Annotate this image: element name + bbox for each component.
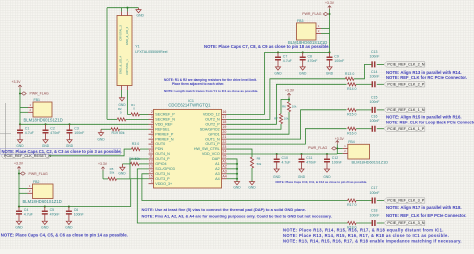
svg-text:PCIE_REF_CLK_RESET_N: PCIE_REF_CLK_RESET_N [4, 154, 51, 158]
svg-text:VDDO_3+: VDDO_3+ [155, 182, 172, 186]
note refclk RC [386, 75, 467, 80]
wire pin20 GPIO1 to R6 [227, 112, 290, 134]
wire reset label to R3 [49, 149, 132, 156]
note place R close [283, 233, 449, 238]
note refclk loopback [386, 120, 474, 125]
IC1 right pin 25 DAP [212, 155, 226, 161]
Y1 top pin stubs [122, 12, 128, 16]
gnd text under C1 [16, 144, 24, 148]
svg-text:4.7uF: 4.7uF [283, 59, 292, 63]
gnd text under C2 [42, 144, 50, 148]
svg-text:GND: GND [273, 175, 281, 179]
svg-text:9: 9 [151, 145, 153, 149]
capacitor C17 100nF [370, 186, 380, 203]
svg-text:11: 11 [149, 155, 153, 159]
wire C16 to label [377, 128, 384, 130]
svg-text:C13: C13 [371, 50, 377, 54]
svg-text:22: 22 [222, 140, 226, 144]
svg-text:C5: C5 [50, 208, 55, 212]
svg-text:PCIE_REF_CLK_3_N: PCIE_REF_CLK_3_N [387, 221, 424, 225]
gnd text under C10 [273, 175, 281, 179]
wire rail2 [19, 206, 131, 208]
note align R15 R16 [386, 115, 462, 120]
svg-text:NOTE: R13, R14, R15, R16, R17,: NOTE: R13, R14, R15, R16, R17, & R18 ena… [283, 238, 462, 243]
gnd at crystal top [136, 8, 145, 18]
gnd text under C8 [299, 72, 307, 76]
svg-text:FB3: FB3 [297, 19, 303, 23]
capacitor C11 [299, 153, 317, 172]
svg-text:PCIE_REF_CLK_2_P: PCIE_REF_CLK_2_P [387, 83, 424, 87]
wire R15 to C15 [356, 109, 372, 111]
global label PCIE_REF_CLK_3_P [384, 198, 425, 203]
gnd text under C7 [274, 72, 282, 76]
IC1 left pin 1 VDDO_3+ [149, 179, 173, 185]
svg-text:1: 1 [151, 179, 153, 183]
svg-text:REFSEL: REFSEL [155, 127, 169, 131]
svg-text:100nF: 100nF [74, 131, 84, 135]
svg-text:100nF: 100nF [370, 213, 380, 217]
gnd text under C9 [326, 72, 334, 76]
svg-text:R17 0: R17 0 [347, 203, 356, 207]
svg-text:470nF: 470nF [306, 161, 316, 165]
svg-text:4.7uF: 4.7uF [25, 131, 34, 135]
ferrite bead FB4 [348, 140, 370, 159]
IC1 left pin 14 OUT3_N [149, 170, 171, 176]
junction FB4 +3.3V [336, 147, 338, 149]
Y1 pin name CRYSTAL_3 (rotated) [119, 25, 123, 41]
svg-text:GND: GND [274, 72, 282, 76]
global label PCIE_REF_CLK_2_P [384, 82, 425, 87]
crystal Y1 symbol body [117, 16, 132, 86]
IC1 reference designator [188, 99, 194, 103]
wire pin13 OUT3_N to row 3N [137, 169, 347, 223]
svg-text:R7: R7 [274, 117, 278, 121]
svg-text:21: 21 [222, 135, 226, 139]
svg-text:GND: GND [42, 144, 50, 148]
power flag PWR_FLAG (FB4) [308, 146, 337, 150]
wire R17 to C17 [356, 200, 372, 202]
capacitor C9 [327, 52, 345, 70]
svg-text:A1: A1 [215, 162, 220, 166]
svg-text:BLM18HD601S1Z1D: BLM18HD601S1Z1D [352, 159, 389, 164]
global label PCIE_REF_CLK_2_N [384, 62, 425, 67]
svg-text:NOTE: Place R13, R14, R15, R16: NOTE: Place R13, R14, R15, R16, R17, & R… [283, 233, 449, 238]
wire pin17 OUT2_N up [227, 79, 346, 120]
note box caps C1C2C3 [1, 148, 122, 154]
svg-text:PRIREF_N: PRIREF_N [155, 137, 174, 141]
global label PCIE_REF_CLK_RESET_N [1, 153, 51, 159]
svg-text:FB2: FB2 [33, 180, 39, 184]
svg-text:R6: R6 [282, 105, 286, 109]
svg-text:PWR_FLAG: PWR_FLAG [308, 146, 328, 150]
IC U1 symbol body CDCE6214TWRGTQ1 [154, 109, 222, 188]
resistor R18 0 [347, 221, 356, 229]
svg-text:A3: A3 [215, 172, 220, 176]
wire R4 to pin12 [139, 163, 149, 165]
wire C13 to label [377, 63, 384, 65]
svg-text:GND: GND [41, 225, 49, 229]
IC1 right pin 18 OUT2_P [205, 120, 226, 126]
wire R18 to C18 [356, 222, 372, 224]
svg-text:10k: 10k [284, 117, 289, 121]
gnd text under C11 [298, 175, 306, 179]
svg-text:A3: A3 [222, 170, 226, 174]
resistor R13 0 [345, 72, 354, 80]
gnd text under C5 [41, 225, 49, 229]
wire pin16 VDDO_12 to rail0 [227, 52, 265, 114]
svg-text:GND: GND [326, 72, 334, 76]
svg-text:CRYSTAL_3: CRYSTAL_3 [119, 25, 123, 41]
wire C14 to label [377, 83, 384, 85]
svg-text:+3.3V: +3.3V [14, 162, 24, 166]
capacitor C2 [43, 123, 61, 143]
capacitor C8 [300, 51, 318, 70]
note align R13 R14 [386, 70, 462, 75]
svg-text:5: 5 [151, 125, 153, 129]
svg-text:7: 7 [151, 135, 153, 139]
note caps C4C5C6 [1, 233, 128, 238]
global label PCIE_REF_CLK_1_P [384, 126, 425, 131]
svg-text:NOTE: Place Caps C4, C5, & C6: NOTE: Place Caps C4, C5, & C6 as close t… [1, 233, 128, 238]
IC1 left pin 3 SECREF_N [149, 115, 176, 121]
svg-text:VDD_REF: VDD_REF [155, 122, 173, 126]
svg-text:GND: GND [65, 225, 73, 229]
svg-text:OUT3_N: OUT3_N [155, 172, 170, 176]
wire Y1 top to GND [107, 7, 139, 12]
svg-text:R8: R8 [257, 157, 261, 161]
left margin crosshair mark [0, 103, 11, 158]
svg-text:GND: GND [233, 186, 241, 190]
wire R5 to pin11 [130, 159, 149, 179]
svg-text:C15: C15 [371, 96, 377, 100]
junction rail0 feed [328, 51, 330, 53]
svg-text:23: 23 [222, 145, 226, 149]
gnd below DAP [233, 182, 241, 190]
IC1 left pin 10 OUT4_N [149, 150, 171, 156]
svg-text:R14 0: R14 0 [347, 87, 356, 91]
svg-text:PCIE_REF_CLK_2_N: PCIE_REF_CLK_2_N [387, 63, 424, 67]
resistor R4 50k [122, 157, 140, 165]
svg-text:PRIREF_P: PRIREF_P [155, 132, 174, 136]
svg-text:GND: GND [97, 138, 105, 142]
Y1 pin name GND_&_LID_2 (rotated) [125, 26, 129, 45]
wire C18 to label [377, 222, 384, 224]
svg-text:GPIO1: GPIO1 [208, 132, 219, 136]
svg-text:10: 10 [149, 150, 153, 154]
IC1 right pin A3 A3 [215, 170, 227, 176]
svg-text:18: 18 [222, 120, 226, 124]
wire rail2 up to pin15 [131, 179, 149, 207]
svg-text:15: 15 [149, 174, 153, 178]
capacitor C1 [17, 124, 34, 143]
wire C15 to label [377, 109, 384, 111]
note refclk EP [386, 213, 466, 218]
capacitor C6 [66, 206, 84, 225]
power +3.3V (R5 pullup) [98, 162, 108, 179]
svg-text:12: 12 [149, 160, 153, 164]
wire pin23 to R8 [227, 149, 253, 157]
wire R19 to pin5 REFSEL [120, 128, 149, 130]
svg-text:C8: C8 [308, 54, 313, 58]
gnd below R8 [248, 182, 256, 190]
svg-text:C10: C10 [282, 156, 288, 160]
IC1 right pin 20 GPIO1 [208, 130, 226, 136]
IC1 right pin 19 SDA/GPIO2 [200, 125, 227, 131]
svg-text:19: 19 [222, 125, 226, 129]
svg-text:13: 13 [149, 165, 153, 169]
svg-text:+3.3V: +3.3V [335, 137, 345, 141]
svg-text:NOTE: Pins A1, A2, A3, & A4 ar: NOTE: Pins A1, A2, A3, & A4 are for moun… [142, 213, 332, 218]
svg-text:100nF: 100nF [370, 100, 380, 104]
gnd text under C4 [15, 225, 23, 229]
svg-text:C7: C7 [283, 54, 288, 58]
FB1 value BLM18HD601S1Z1D [24, 117, 63, 122]
Y1 value LFXTAL055069Reel [135, 50, 167, 54]
capacitor C10 [274, 153, 291, 172]
gnd text under C12 [323, 175, 331, 179]
resistor R15 0 [347, 108, 356, 116]
wire R1 to pin2 [140, 113, 149, 115]
wire rail0 C7-C9 [265, 51, 330, 53]
IC1 value CDCE6214TWRGTQ1 [168, 102, 211, 107]
gnd text under C3 [66, 144, 74, 148]
svg-text:C4: C4 [24, 208, 29, 212]
wire pin22 OUT1_P up [227, 129, 347, 144]
wire R14 to C14 [356, 83, 372, 85]
wire left vert to R2 [107, 118, 117, 120]
power flag PWR_FLAG (FB1) [19, 92, 49, 96]
svg-text:SCL/GPIO3: SCL/GPIO3 [155, 167, 174, 171]
gnd below crystal [118, 98, 126, 107]
svg-text:A4: A4 [215, 177, 220, 181]
capacitor C16 100nF [370, 114, 380, 131]
svg-text:NOTE: Place Caps C7, C8, & C9: NOTE: Place Caps C7, C8, & C9 as close t… [204, 44, 330, 49]
svg-text:4: 4 [151, 120, 153, 124]
FB3 value BLM18HD601S1Z1D [288, 40, 327, 45]
junction rail2 left [18, 206, 20, 208]
IC1 left pin 5 REFSEL [149, 125, 170, 131]
IC1 left pin 4 VDD_REF [149, 120, 174, 126]
wire R3 to pin9 PDN [140, 148, 149, 150]
svg-text:PCIE_REF_CLK_1_N: PCIE_REF_CLK_1_N [387, 108, 424, 112]
global label PCIE_REF_CLK_1_N [384, 107, 425, 112]
svg-text:R13 0: R13 0 [345, 72, 354, 76]
resistor R5 50k [103, 167, 130, 181]
svg-text:50k: 50k [257, 162, 262, 166]
IC1 right pin A4 A4 [215, 174, 227, 180]
svg-text:C16: C16 [371, 114, 377, 118]
svg-text:BLM18HD601S1Z1D: BLM18HD601S1Z1D [24, 117, 63, 122]
svg-text:470nF: 470nF [308, 59, 318, 63]
svg-text:GND_&_LID_2: GND_&_LID_2 [125, 26, 129, 45]
svg-text:CRYSTAL_1: CRYSTAL_1 [125, 59, 129, 75]
capacitor C3 [67, 123, 85, 143]
svg-text:VDD_VCO: VDD_VCO [202, 152, 220, 156]
Y1 reference [135, 45, 139, 49]
svg-text:OUT2_N: OUT2_N [205, 117, 220, 121]
svg-text:GND: GND [248, 186, 256, 190]
svg-text:OUT4_P: OUT4_P [155, 157, 170, 161]
wire pin19 SDA to R7 [227, 124, 282, 129]
power flag PWR_FLAG (FB2) [18, 172, 48, 176]
Y1 pin name CRYSTAL_1 (rotated) [125, 59, 129, 75]
svg-text:NOTE: REF_CLK for EP PCIe Conn: NOTE: REF_CLK for EP PCIe Connector. [386, 213, 466, 218]
power +3.3V (FB4 feed) [335, 137, 345, 154]
power +3.3V (FB1 feed) [12, 80, 22, 124]
svg-text:Y1: Y1 [135, 45, 139, 49]
svg-text:LFXTAL055069Reel: LFXTAL055069Reel [135, 50, 167, 54]
svg-text:3: 3 [151, 115, 153, 119]
svg-text:CDCE6214TWRGTQ1: CDCE6214TWRGTQ1 [168, 102, 211, 107]
svg-text:100nF: 100nF [370, 119, 380, 123]
svg-text:DAP: DAP [212, 157, 220, 161]
note caps C7C8C9 [204, 44, 330, 49]
svg-text:50k: 50k [110, 171, 115, 175]
capacitor C18 100nF [370, 209, 380, 226]
svg-text:8: 8 [151, 140, 153, 144]
resistor R2 [117, 107, 126, 121]
gnd for R4 [118, 164, 126, 176]
wire crystal right pin down to R1 [128, 90, 132, 114]
svg-text:BLM18HD601S1Z1D: BLM18HD601S1Z1D [23, 199, 62, 204]
IC1 left pin 12 GPIO4 [149, 160, 167, 166]
svg-text:14: 14 [149, 170, 153, 174]
svg-text:C6: C6 [74, 208, 79, 212]
svg-text:25: 25 [222, 155, 226, 159]
wire pin21 OUT1_N up [227, 110, 347, 139]
resistor R14 0 [347, 83, 356, 91]
note mounting pins [142, 213, 332, 218]
note align R17 R18 [386, 205, 462, 210]
IC1 right pin 24 VDD_VCO [202, 150, 227, 156]
svg-text:C9: C9 [334, 54, 339, 58]
svg-text:NOTE: Place R13, R14, R15, R16: NOTE: Place R13, R14, R15, R16, R17, & R… [283, 228, 444, 233]
svg-text:10k: 10k [292, 105, 297, 109]
svg-text:100nF: 100nF [370, 191, 380, 195]
svg-text:R15 0: R15 0 [347, 113, 356, 117]
FB3 pin stubs [316, 24, 330, 34]
svg-text:FB1: FB1 [34, 98, 40, 102]
power flag PWR_FLAG (FB3) [302, 12, 330, 16]
svg-text:470nF: 470nF [50, 213, 60, 217]
FB2 pin stubs [19, 184, 33, 193]
resistor R7 10k [274, 114, 289, 124]
wire R2 to pin3 [126, 118, 149, 120]
svg-text:Place them adjacent to each ot: Place them adjacent to each other. [172, 82, 224, 86]
note caps C10C11C12 [276, 180, 368, 184]
IC1 left pin 2 SECREF_P [149, 110, 176, 116]
svg-text:NOTE: Use at least five (5) vi: NOTE: Use at least five (5) vias to conn… [142, 207, 306, 212]
IC1 left pin 11 OUT4_P [149, 155, 171, 161]
svg-text:+3.3V: +3.3V [98, 162, 108, 166]
svg-text:20: 20 [222, 130, 226, 134]
svg-text:100nF: 100nF [370, 75, 380, 79]
wire R8 to gnd [251, 168, 253, 182]
svg-text:GND_&_LID_4: GND_&_LID_4 [119, 55, 123, 74]
svg-text:GND: GND [15, 225, 23, 229]
power +3.3V (FB2 feed) [14, 162, 24, 207]
IC1 left pin 6 PRIREF_P [149, 130, 174, 136]
resistor R6 10k [282, 102, 297, 112]
svg-text:NOTE: Align R17 in parallel wi: NOTE: Align R17 in parallel with R18. [386, 205, 462, 210]
gnd for R19 [97, 129, 111, 141]
capacitor C15 100nF [370, 96, 380, 113]
svg-text:GND: GND [66, 144, 74, 148]
global label PCIE_REF_CLK_3_N [384, 220, 425, 225]
svg-text:24: 24 [222, 150, 226, 154]
svg-text:NOTE: REF_CLK for Loop Back PC: NOTE: REF_CLK for Loop Back PCIe Connect… [386, 120, 474, 125]
svg-text:NOTE: Length match traces from: NOTE: Length match traces from Y1 to IC1… [164, 89, 258, 93]
ferrite bead FB1 [33, 98, 52, 117]
resistor R19 50k [111, 128, 125, 135]
svg-text:OUT1_N: OUT1_N [205, 137, 220, 141]
resistor R16 0 [347, 127, 356, 135]
wire DAP/A pins to gnd [227, 159, 239, 182]
capacitor C13 100nF [370, 50, 380, 68]
gnd text under C6 [65, 225, 73, 229]
svg-text:GND: GND [298, 175, 306, 179]
svg-text:C17: C17 [371, 186, 377, 190]
wire rail VDD_REF (pin4) [20, 123, 149, 125]
wire R13 jog up to C13 [354, 64, 372, 78]
capacitor C14 100nF [370, 70, 380, 87]
FB4 value BLM18HD601S1Z1D [352, 159, 389, 164]
svg-text:VDDO_12: VDDO_12 [203, 113, 220, 117]
wire pin18 OUT2_P up [227, 84, 347, 124]
resistor R8 50k [250, 157, 261, 168]
svg-text:GND: GND [16, 144, 24, 148]
svg-text:PCIE_REF_CLK_3_P: PCIE_REF_CLK_3_P [387, 199, 424, 203]
note place R equal [283, 228, 444, 233]
svg-text:100nF: 100nF [74, 213, 84, 217]
wire R16 to C16 [356, 128, 372, 130]
svg-text:2: 2 [151, 110, 153, 114]
svg-text:C11: C11 [306, 156, 312, 160]
svg-text:GND: GND [137, 14, 145, 18]
IC1 right pin 23 HW_SW_CTRL [194, 145, 227, 151]
svg-text:6: 6 [151, 130, 153, 134]
IC1 right pin A2 A2 [215, 165, 227, 171]
IC1 left pin 15 OUT3_P [149, 174, 171, 180]
IC1 left pin 7 PRIREF_N [149, 135, 174, 141]
svg-text:100nF: 100nF [334, 59, 344, 63]
IC1 left pin 8 OUT0 [149, 140, 166, 146]
ferrite bead FB3 [297, 19, 317, 40]
svg-text:PDN: PDN [155, 147, 163, 151]
svg-text:470nF: 470nF [50, 131, 60, 135]
FB4 pin stubs [337, 144, 348, 154]
svg-text:OUT2_P: OUT2_P [205, 122, 220, 126]
power +3.3V (R6 R7 pullups) [285, 88, 295, 101]
Y1 pin name GND_&_LID_4 (rotated) [119, 55, 123, 74]
note thermal pad [142, 207, 306, 212]
IC1 left pin 13 SCL/GPIO3 [149, 165, 175, 171]
svg-text:A2: A2 [222, 165, 226, 169]
capacitor C12 [324, 153, 342, 172]
capacitor C4 [16, 207, 33, 225]
svg-text:C14: C14 [371, 70, 377, 74]
svg-text:SECREF_P: SECREF_P [155, 113, 175, 117]
note impedance [283, 238, 462, 243]
svg-text:C12: C12 [332, 156, 338, 160]
IC1 right pin 22 OUT1_P [205, 140, 226, 146]
Y1 bottom pin stubs [122, 86, 128, 91]
wire Y1 pin to gnd below [121, 90, 123, 98]
svg-text:HW_SW_CTRL: HW_SW_CTRL [194, 147, 220, 151]
svg-text:100nF: 100nF [370, 55, 380, 59]
svg-text:R3 0: R3 0 [132, 142, 139, 146]
svg-text:OUT4_N: OUT4_N [155, 152, 170, 156]
